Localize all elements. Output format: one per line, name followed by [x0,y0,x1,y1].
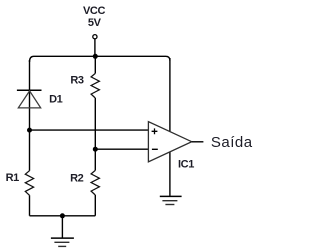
svg-text:Saída: Saída [211,134,253,151]
svg-text:IC1: IC1 [178,159,194,171]
svg-text:R1: R1 [6,172,20,184]
svg-text:D1: D1 [49,93,63,105]
svg-text:5V: 5V [88,17,102,29]
svg-text:R3: R3 [70,75,84,87]
svg-text:VCC: VCC [83,5,105,17]
svg-text:R2: R2 [70,172,84,184]
